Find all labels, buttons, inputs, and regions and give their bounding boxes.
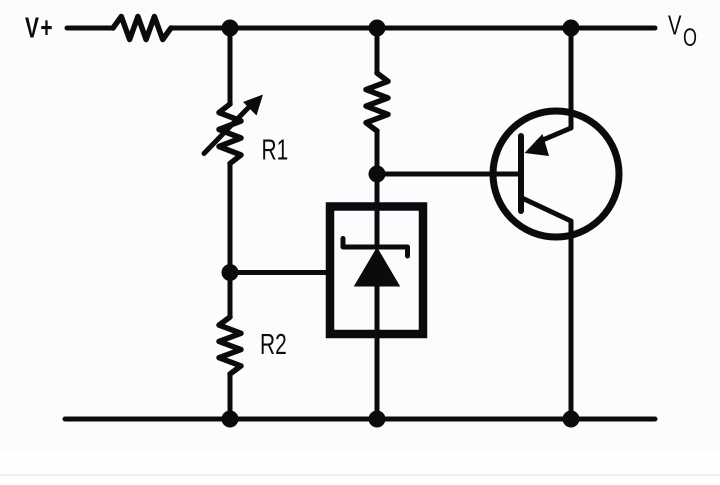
- resistor R1 (variable) zigzag: [219, 104, 241, 164]
- svg-text:R1: R1: [262, 134, 289, 166]
- junction dot top rail x=377: [369, 20, 386, 37]
- resistor R2 zigzag: [219, 317, 241, 374]
- transistor Q1 base bar: [518, 136, 524, 211]
- wire bottom rail: [65, 417, 655, 422]
- wire R2 bottom: [228, 374, 233, 419]
- svg-text:V: V: [668, 10, 682, 41]
- wire base (node B to transistor base): [377, 172, 521, 177]
- svg-text:V+: V+: [25, 12, 54, 44]
- wire top rail right segment: [171, 26, 655, 31]
- transistor Q1 emitter diagonal: [538, 128, 571, 142]
- wire collector vertical (transistor to bottom rail): [569, 222, 574, 419]
- wire top rail left segment: [67, 26, 113, 31]
- zener D1 anode triangle: [356, 249, 399, 286]
- wire zener anode to bottom rail: [375, 283, 380, 419]
- wire middle resistor to node B: [375, 131, 380, 174]
- arrow of variable resistor R1: [204, 108, 248, 154]
- svg-text:R2: R2: [260, 329, 287, 361]
- wire R1 to node A: [228, 164, 233, 318]
- junction dot bottom rail x=571: [563, 411, 580, 428]
- wire ref (node A to regulator box): [230, 270, 330, 275]
- junction dot top rail x=571: [563, 20, 580, 37]
- junction node B (377,174): [369, 166, 386, 183]
- transistor Q1 emitter arrowhead: [525, 134, 550, 156]
- wire R1 branch top: [228, 28, 233, 104]
- junction dot bottom rail x=230: [222, 411, 239, 428]
- junction node A (230,272.5): [222, 264, 239, 281]
- junction dot top rail x=230: [222, 20, 239, 37]
- resistor input (horizontal, unlabeled): [113, 17, 171, 40]
- zener D1 cathode bar: [343, 239, 408, 257]
- junction dot bottom rail x=377: [369, 411, 386, 428]
- svg-text:O: O: [683, 23, 697, 52]
- wire middle branch top: [375, 28, 380, 73]
- transistor Q1 collector diagonal: [522, 198, 571, 221]
- wire emitter vertical (top rail to transistor): [569, 28, 574, 128]
- wire node B to zener cathode: [375, 174, 380, 247]
- resistor middle (unlabeled) zigzag: [366, 73, 388, 131]
- transistor Q1 circle: [493, 111, 619, 237]
- regulator box U1 (TL431 outline): [330, 207, 423, 335]
